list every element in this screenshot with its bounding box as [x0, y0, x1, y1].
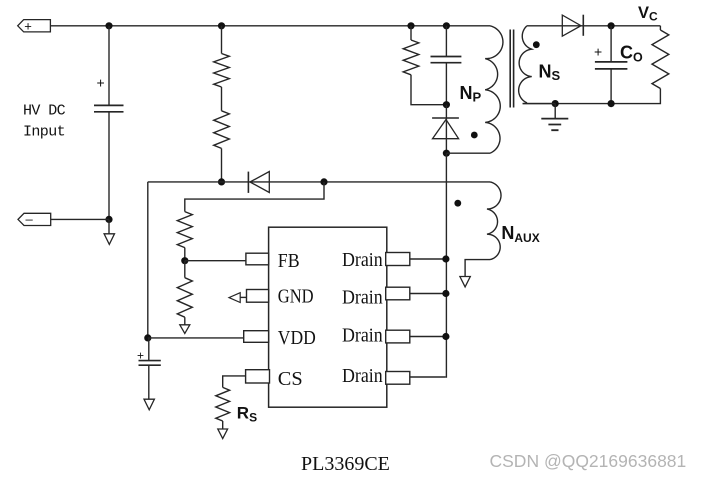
- pin GND box: [247, 290, 269, 303]
- wire startup chain top lead: [221, 26, 223, 54]
- svg-text:–: –: [26, 212, 34, 227]
- wire Drain4 to bus elbow: [410, 376, 446, 378]
- svg-text:Drain: Drain: [342, 365, 383, 387]
- wire CS pin to R_S: [223, 376, 246, 388]
- wire FB node to pin: [185, 260, 246, 262]
- wire input cap bottom lead: [108, 112, 110, 220]
- wire drain bus vertical: [445, 153, 448, 377]
- transformer secondary winding N_S: [519, 26, 532, 103]
- node: rail / startup resistor junction: [218, 22, 225, 29]
- pin Drain2 box: [386, 287, 410, 300]
- wire GND pin lead: [240, 296, 246, 298]
- wire FB resistor to node: [184, 248, 186, 261]
- wire R_S bottom lead: [222, 421, 224, 429]
- resistor R_snub (clamp): [403, 40, 419, 75]
- capacitor C_O plates: [595, 62, 628, 69]
- resistor R2 (startup lower): [214, 111, 230, 149]
- wire VDD to pin: [148, 337, 244, 339]
- wire VDD node to N_AUX top: [148, 181, 490, 183]
- diode D2 (aux rectifier, cathode left): [247, 172, 249, 193]
- pin Drain3 box: [386, 330, 410, 343]
- wire secondary bottom lead: [523, 103, 556, 105]
- svg-text:Drain: Drain: [342, 287, 383, 309]
- wire startup chain bottom lead: [221, 148, 223, 182]
- wire N_AUX bottom elbow: [465, 260, 490, 277]
- ground (VDD cap): [144, 399, 154, 410]
- wire drain node to primary bottom: [446, 152, 490, 154]
- transformer primary winding N_P: [485, 26, 503, 153]
- capacitor C_in (bulk input) plates: [94, 105, 124, 111]
- ground (primary input): [104, 234, 114, 245]
- node: startup chain / aux diode wire: [218, 178, 225, 185]
- resistor R1 (startup upper): [214, 54, 230, 88]
- wire secondary top to Vc rail: [527, 25, 660, 27]
- transformer aux winding N_AUX: [487, 182, 501, 260]
- svg-text:GND: GND: [278, 286, 314, 308]
- svg-text:CSDN @QQ2169636881: CSDN @QQ2169636881: [490, 451, 687, 471]
- ground (N_AUX, open arrow): [460, 277, 470, 287]
- svg-text:VDD: VDD: [278, 327, 316, 349]
- svg-text:FB: FB: [278, 250, 300, 272]
- transformer core: [510, 30, 513, 108]
- node: clamp node: [443, 101, 450, 108]
- op IC U1 PL3369CE body: [269, 227, 387, 407]
- input terminal + (positive): [18, 20, 51, 32]
- earth ground (secondary): [554, 104, 556, 119]
- polarity dot N_P (bottom): [471, 132, 478, 139]
- pin FB box: [246, 253, 269, 265]
- capacitor C_vdd plates: [139, 361, 161, 366]
- node: rail / input cap junction: [105, 22, 112, 29]
- pin Drain4 box: [386, 372, 410, 385]
- node: secondary return left: [552, 100, 559, 107]
- svg-text:Drain: Drain: [342, 324, 383, 346]
- svg-text:CS: CS: [278, 368, 303, 390]
- wire negative input lead: [51, 218, 109, 220]
- wire snubber resistor top lead: [410, 26, 412, 40]
- wire input cap top lead: [108, 26, 110, 105]
- node: negative rail junction: [105, 216, 112, 223]
- node: bus drain2: [442, 290, 449, 297]
- resistor R_load (output load): [652, 30, 669, 89]
- wire clamp node to drain node: [445, 105, 447, 154]
- resistor R_S (current sense): [216, 387, 230, 421]
- capacitor C_snub (clamp) plates: [431, 57, 462, 63]
- wire VDD cap top lead: [148, 338, 150, 360]
- input terminal - (negative): [18, 213, 51, 225]
- node: rail / snubber cap junction: [443, 22, 450, 29]
- wire top rail (+HV rail): [50, 25, 490, 27]
- svg-text:+: +: [594, 44, 602, 60]
- wire FB lower resistor bottom lead: [184, 317, 186, 325]
- wire load resistor bottom lead: [523, 89, 661, 104]
- wire FB tap elbow: [185, 182, 324, 212]
- wire VDD vertical line: [147, 182, 149, 338]
- wire load resistor top lead: [659, 26, 661, 30]
- resistor R3 (FB upper): [177, 212, 192, 248]
- wire VDD cap bottom lead: [148, 365, 150, 399]
- pin CS box: [246, 370, 270, 383]
- wire output cap bottom lead: [610, 69, 612, 104]
- node: secondary return right: [608, 100, 615, 107]
- node: FB node: [181, 257, 188, 264]
- node: Vc / output cap junction: [608, 22, 615, 29]
- diode D_clamp (cathode up): [432, 117, 459, 119]
- node: bus drain1: [442, 255, 449, 262]
- resistor R4 (FB lower): [177, 278, 192, 318]
- pin Drain1 box: [386, 253, 410, 266]
- wire Drain1 to bus: [410, 258, 446, 260]
- pin VDD box: [244, 331, 269, 343]
- wire between startup resistors: [221, 87, 223, 111]
- svg-text:+: +: [97, 75, 105, 91]
- wire FB lower resistor top lead: [184, 261, 186, 278]
- ground (FB divider): [180, 325, 190, 334]
- wire snubber cap bottom lead: [445, 63, 447, 105]
- node: rail / snubber resistor junction: [407, 22, 414, 29]
- svg-text:Input: Input: [23, 124, 65, 141]
- svg-text:+: +: [24, 18, 32, 33]
- wire snubber cap top lead: [445, 26, 447, 57]
- wire to primary ground: [108, 219, 110, 233]
- svg-text:Drain: Drain: [342, 249, 383, 271]
- wire Drain3 to bus: [410, 336, 446, 338]
- wire Drain2 to bus: [410, 293, 446, 295]
- polarity dot N_S (top): [533, 41, 540, 48]
- polarity dot N_AUX (top): [454, 200, 461, 207]
- diode D_out (output rectifier): [562, 15, 581, 36]
- svg-text:HV DC: HV DC: [23, 103, 66, 120]
- node: primary bottom / drain node: [443, 150, 450, 157]
- svg-text:PL3369CE: PL3369CE: [301, 453, 390, 475]
- ground arrow (GND pin, open triangle left): [229, 293, 240, 303]
- node: bus drain3: [442, 333, 449, 340]
- wire output cap top lead: [610, 26, 612, 62]
- node: FB divider tap junction: [320, 178, 327, 185]
- node: VDD junction: [144, 334, 151, 341]
- wire snubber resistor bottom elbow: [411, 75, 446, 105]
- ground (R_S): [218, 429, 228, 439]
